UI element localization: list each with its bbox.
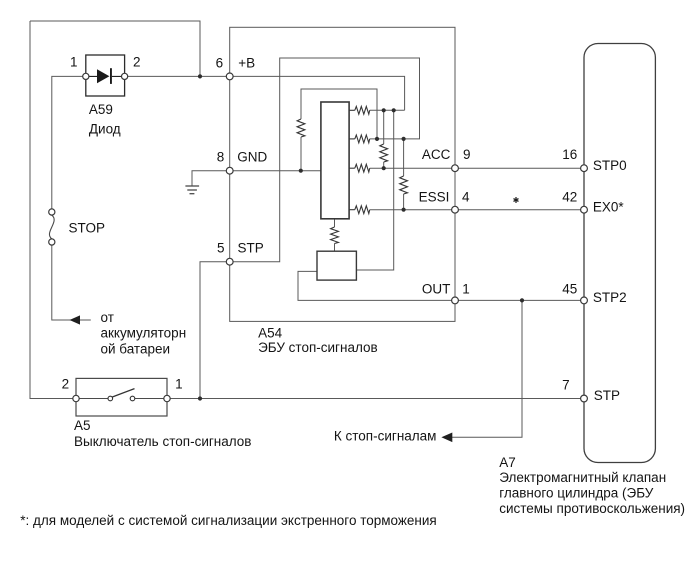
svg-text:6: 6	[216, 55, 224, 70]
svg-text:GND: GND	[237, 150, 267, 165]
svg-text:1: 1	[462, 281, 470, 296]
svg-text:К стоп-сигналам: К стоп-сигналам	[334, 428, 437, 443]
svg-text:ой батареи: ой батареи	[101, 341, 171, 356]
svg-text:от: от	[101, 310, 114, 325]
svg-text:STP0: STP0	[593, 158, 627, 173]
svg-text:1: 1	[175, 376, 183, 391]
svg-text:*: для моделей с системой сигн: *: для моделей с системой сигнализации э…	[20, 513, 436, 528]
svg-text:7: 7	[562, 377, 570, 392]
svg-text:Диод: Диод	[89, 121, 121, 136]
svg-text:STP: STP	[238, 241, 264, 256]
svg-text:9: 9	[463, 147, 471, 162]
svg-text:STP: STP	[594, 388, 620, 403]
svg-text:ACC: ACC	[422, 147, 451, 162]
svg-text:1: 1	[70, 55, 78, 70]
svg-text:ЭБУ стоп-сигналов: ЭБУ стоп-сигналов	[258, 340, 378, 355]
svg-text:42: 42	[562, 189, 577, 204]
svg-text:STOP: STOP	[69, 221, 106, 236]
svg-text:8: 8	[217, 150, 225, 165]
svg-text:STP2: STP2	[593, 290, 627, 305]
svg-text:Выключатель стоп-сигналов: Выключатель стоп-сигналов	[74, 434, 251, 449]
svg-text:2: 2	[62, 376, 70, 391]
svg-text:2: 2	[133, 55, 141, 70]
svg-text:4: 4	[462, 189, 470, 204]
svg-text:EX0*: EX0*	[593, 199, 625, 214]
svg-text:5: 5	[217, 241, 225, 256]
svg-text:Электромагнитный клапан: Электромагнитный клапан	[499, 470, 666, 485]
svg-text:+B: +B	[238, 55, 255, 70]
svg-text:A59: A59	[89, 102, 113, 117]
svg-text:A54: A54	[258, 326, 283, 341]
svg-text:16: 16	[562, 147, 577, 162]
svg-text:45: 45	[562, 281, 577, 296]
svg-text:OUT: OUT	[422, 281, 451, 296]
svg-text:аккумуляторн: аккумуляторн	[101, 326, 187, 341]
svg-text:главного цилиндра (ЭБУ: главного цилиндра (ЭБУ	[499, 486, 654, 501]
svg-text:A5: A5	[74, 418, 91, 433]
svg-text:ESSI: ESSI	[419, 189, 450, 204]
svg-text:системы противоскольжения): системы противоскольжения)	[499, 501, 685, 516]
svg-text:A7: A7	[499, 455, 516, 470]
